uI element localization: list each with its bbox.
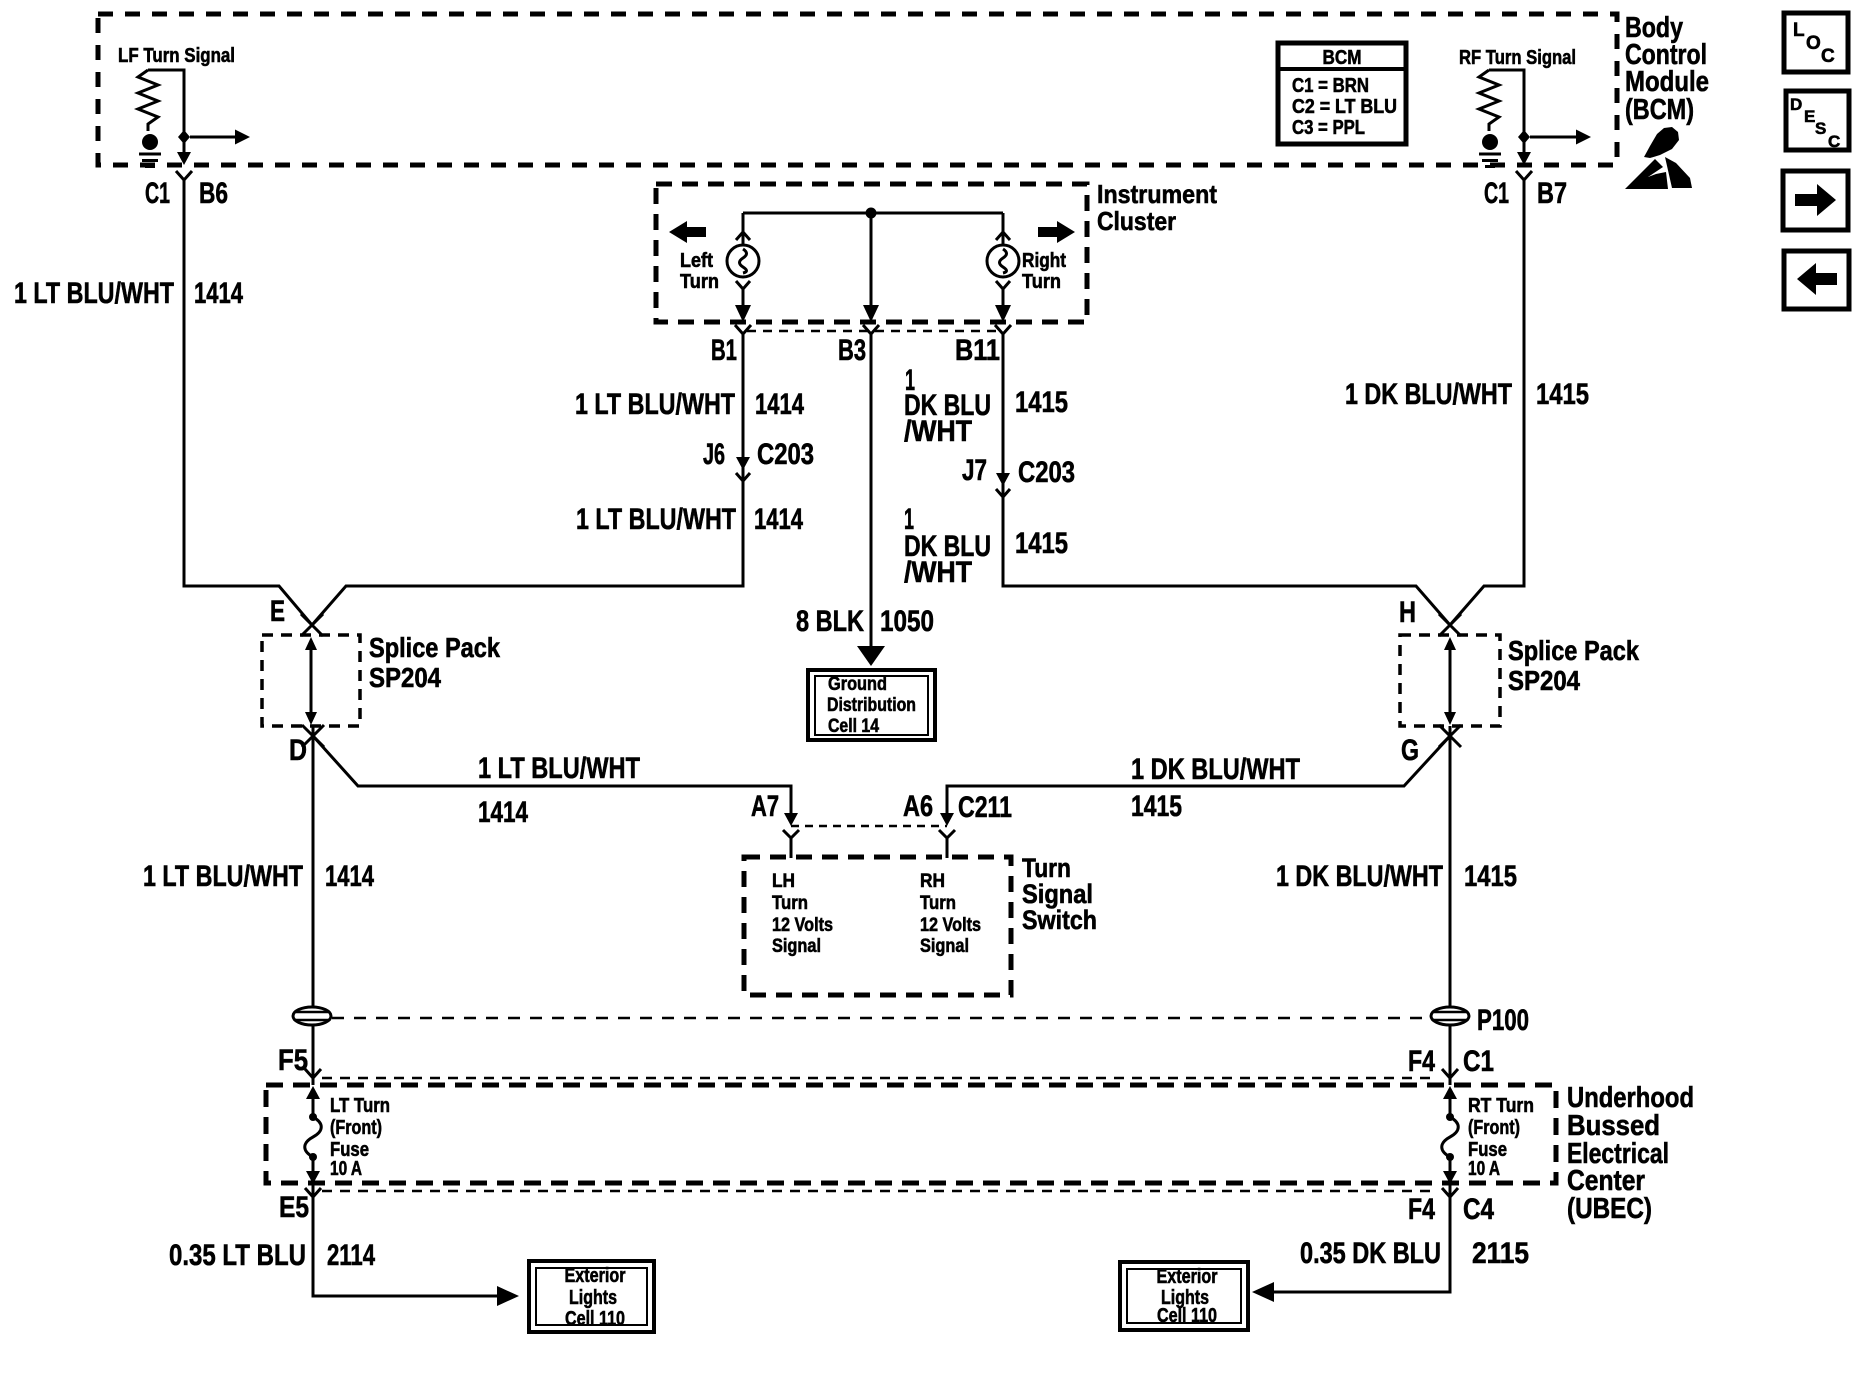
splice bus arrow right — [1444, 637, 1456, 725]
wire D to A7 — [313, 736, 791, 813]
node junction RF output — [1518, 130, 1530, 144]
svg-text:1 LT BLU/WHT: 1 LT BLU/WHT — [478, 752, 640, 785]
connector E5 — [305, 1188, 321, 1205]
svg-text:Ground: Ground — [828, 674, 887, 695]
Exterior Lights Cell 110 box right — [1120, 1262, 1248, 1330]
svg-text:Distribution: Distribution — [827, 695, 916, 716]
svg-text:Turn: Turn — [772, 893, 808, 914]
ground RF — [1479, 134, 1501, 167]
svg-text:Right: Right — [1022, 250, 1066, 272]
svg-text:SP204: SP204 — [1508, 665, 1580, 696]
svg-text:A6: A6 — [903, 790, 933, 823]
svg-text:1415: 1415 — [1015, 386, 1068, 419]
svg-text:/WHT: /WHT — [904, 556, 972, 589]
svg-text:D: D — [1790, 95, 1802, 114]
svg-text:C: C — [1828, 132, 1840, 151]
resistor LF Turn Signal — [118, 45, 235, 152]
svg-text:C211: C211 — [958, 791, 1012, 824]
svg-text:1415: 1415 — [1131, 790, 1182, 823]
svg-text:Cell 110: Cell 110 — [1157, 1305, 1217, 1327]
svg-text:Cell 110: Cell 110 — [565, 1308, 625, 1330]
splice pack SP204 right box — [1400, 635, 1500, 726]
svg-text:12 Volts: 12 Volts — [920, 915, 981, 936]
svg-text:Turn: Turn — [680, 271, 719, 293]
connector line C211 dashed — [791, 825, 947, 828]
svg-text:H: H — [1399, 596, 1416, 629]
svg-text:E5: E5 — [279, 1191, 309, 1224]
Exterior Lights Cell 110 box left — [529, 1261, 654, 1332]
resistor RF Turn Signal — [1459, 47, 1576, 152]
svg-text:Splice Pack: Splice Pack — [1508, 635, 1639, 666]
svg-text:12 Volts: 12 Volts — [772, 915, 833, 936]
svg-text:SP204: SP204 — [369, 662, 441, 693]
grommet P100 left — [293, 1007, 331, 1025]
svg-text:Turn: Turn — [920, 893, 956, 914]
svg-text:C2 = LT BLU: C2 = LT BLU — [1292, 96, 1397, 118]
label Body Control Module (BCM) — [1625, 12, 1709, 126]
svg-text:10 A: 10 A — [1468, 1158, 1500, 1180]
svg-text:1414: 1414 — [194, 277, 243, 310]
connector C1/B6 exit arrow — [177, 152, 191, 165]
ESD sensitivity symbol — [1625, 127, 1692, 189]
Ground Distribution Cell 14 box — [808, 670, 935, 740]
node G X junction — [1439, 725, 1461, 747]
wires to cluster bottom with exit arrows — [743, 218, 1003, 306]
lamp Left Turn indicator — [727, 245, 759, 277]
svg-text:A7: A7 — [751, 790, 779, 823]
connector F4/C1 — [1442, 1069, 1458, 1078]
svg-text:1050: 1050 — [880, 605, 934, 638]
svg-text:Signal: Signal — [772, 936, 821, 957]
svg-text:1 LT BLU/WHT: 1 LT BLU/WHT — [143, 860, 303, 893]
junction node B3 tap — [866, 208, 877, 219]
svg-text:Exterior: Exterior — [565, 1265, 626, 1287]
icon DESC — [1786, 91, 1849, 151]
wire arrow inside BCM left — [190, 130, 250, 145]
wire B11 to node H — [1003, 342, 1450, 625]
wire arrow inside BCM right — [1530, 130, 1591, 145]
svg-text:C4: C4 — [1463, 1193, 1494, 1226]
wire B3 ground 8 BLK 1050 — [870, 342, 873, 648]
svg-text:Instrument: Instrument — [1097, 179, 1217, 209]
svg-text:LT Turn: LT Turn — [330, 1095, 390, 1117]
svg-text:Lights: Lights — [569, 1287, 617, 1309]
svg-text:2115: 2115 — [1472, 1237, 1529, 1270]
svg-text:G: G — [1401, 734, 1419, 767]
svg-text:1 DK BLU/WHT: 1 DK BLU/WHT — [1276, 860, 1443, 893]
connector C1/B7 Y symbol — [1516, 171, 1532, 188]
svg-text:E: E — [1804, 107, 1815, 126]
svg-text:C203: C203 — [1018, 456, 1075, 489]
svg-text:F4: F4 — [1408, 1045, 1435, 1078]
icon back arrow — [1784, 251, 1849, 309]
BCM module dashed box — [98, 14, 1617, 165]
svg-text:1414: 1414 — [325, 860, 374, 893]
svg-text:0.35 LT BLU: 0.35 LT BLU — [169, 1239, 306, 1272]
svg-text:C203: C203 — [757, 438, 814, 471]
svg-text:E: E — [270, 595, 285, 628]
svg-text:1415: 1415 — [1536, 378, 1589, 411]
wire B1 to node E — [312, 342, 743, 625]
svg-text:B6: B6 — [199, 177, 228, 210]
splice pack SP204 left box — [262, 635, 360, 726]
svg-text:F4: F4 — [1408, 1193, 1435, 1226]
connector chevrons above bulbs — [736, 232, 1010, 240]
svg-text:LH: LH — [772, 871, 795, 892]
wire E5 to Exterior Lights left — [313, 1184, 499, 1296]
wire G to P100 — [1449, 726, 1452, 1008]
UBEC connector dashed lines — [322, 1077, 1438, 1080]
right turn arrow icon — [1038, 221, 1075, 243]
node H X junction — [1439, 614, 1461, 636]
svg-text:Splice Pack: Splice Pack — [369, 632, 500, 663]
Instrument Cluster dashed box — [656, 184, 1087, 322]
svg-text:B1: B1 — [711, 334, 737, 367]
ground LF — [139, 134, 161, 167]
svg-text:P100: P100 — [1477, 1004, 1529, 1037]
svg-text:(Front): (Front) — [1468, 1117, 1520, 1139]
Turn Signal Switch dashed box — [744, 857, 1011, 995]
lamp Right Turn indicator — [987, 245, 1019, 277]
svg-text:(Front): (Front) — [330, 1117, 382, 1139]
svg-text:2114: 2114 — [327, 1239, 375, 1272]
svg-text:1 LT BLU/WHT: 1 LT BLU/WHT — [575, 388, 735, 421]
svg-text:L: L — [1793, 20, 1805, 41]
P100 dashed line — [332, 1017, 1430, 1020]
svg-text:C1: C1 — [1484, 177, 1509, 210]
svg-text:J6: J6 — [703, 438, 725, 471]
fuse RT Turn (Front) 10 A — [1442, 1086, 1459, 1184]
UBEC dashed box — [266, 1085, 1556, 1183]
svg-text:1414: 1414 — [755, 388, 804, 421]
wire G to A6 — [947, 736, 1450, 813]
wire C4 to Exterior Lights right — [1272, 1184, 1450, 1292]
wire B7 to node H — [1450, 188, 1524, 625]
wires P100 to UBEC — [313, 1025, 1450, 1085]
connector A6 C211 — [939, 813, 955, 858]
svg-text:RF Turn Signal: RF Turn Signal — [1459, 47, 1576, 69]
svg-text:Exterior: Exterior — [1157, 1266, 1218, 1288]
left turn arrow icon — [669, 221, 706, 243]
cluster connector dashed line — [747, 330, 1001, 333]
connector C1/B6 Y symbol — [176, 171, 192, 188]
svg-text:B3: B3 — [838, 334, 866, 367]
svg-text:1414: 1414 — [754, 503, 803, 536]
Y connectors B1 B3 B11 — [735, 325, 751, 342]
connector F4/C4 — [1442, 1188, 1458, 1205]
BCM connector table — [1278, 43, 1406, 144]
svg-text:1415: 1415 — [1015, 527, 1068, 560]
svg-text:RT Turn: RT Turn — [1468, 1095, 1534, 1117]
svg-text:Turn: Turn — [1022, 271, 1061, 293]
svg-text:1414: 1414 — [478, 796, 528, 829]
svg-text:(UBEC): (UBEC) — [1567, 1193, 1652, 1225]
svg-text:1 LT BLU/WHT: 1 LT BLU/WHT — [576, 503, 736, 536]
svg-text:BCM: BCM — [1323, 47, 1362, 69]
connector A7 — [783, 813, 799, 858]
wire B6 to node E — [184, 188, 312, 625]
svg-text:Cluster: Cluster — [1097, 206, 1176, 236]
node junction LF output — [178, 130, 190, 144]
svg-text:C3 = PPL: C3 = PPL — [1292, 117, 1365, 139]
fuse LT Turn (Front) 10 A — [305, 1086, 322, 1184]
svg-text:Left: Left — [680, 250, 713, 272]
svg-text:D: D — [289, 734, 307, 767]
node E X junction — [301, 614, 323, 636]
svg-text:1 LT BLU/WHT: 1 LT BLU/WHT — [14, 277, 174, 310]
cluster bus wire — [743, 213, 1003, 245]
svg-text:0.35 DK BLU: 0.35 DK BLU — [1300, 1237, 1441, 1270]
svg-text:10 A: 10 A — [330, 1158, 362, 1180]
svg-text:B11: B11 — [955, 334, 1000, 367]
svg-text:Cell 14: Cell 14 — [828, 716, 879, 737]
connector J7 C203 — [996, 473, 1010, 497]
svg-text:F5: F5 — [278, 1044, 308, 1077]
svg-text:8 BLK: 8 BLK — [796, 605, 864, 638]
icon LOC — [1784, 13, 1848, 72]
icon next arrow — [1783, 171, 1848, 230]
svg-text:(BCM): (BCM) — [1625, 94, 1694, 126]
grommet P100 right — [1431, 1007, 1469, 1025]
svg-text:LF Turn Signal: LF Turn Signal — [118, 45, 235, 67]
svg-text:C1: C1 — [145, 177, 170, 210]
svg-text:1 DK BLU/WHT: 1 DK BLU/WHT — [1131, 753, 1300, 786]
svg-text:C: C — [1821, 46, 1835, 67]
svg-text:B7: B7 — [1537, 177, 1567, 210]
svg-text:S: S — [1815, 119, 1826, 138]
Y connectors below bulbs — [736, 281, 1010, 297]
connector F5 — [305, 1069, 321, 1078]
connector J6 C203 — [736, 457, 750, 481]
svg-text:/WHT: /WHT — [904, 415, 972, 448]
svg-text:J7: J7 — [962, 454, 987, 487]
svg-text:O: O — [1806, 33, 1821, 54]
svg-text:C1 = BRN: C1 = BRN — [1292, 75, 1369, 97]
svg-text:1 DK BLU/WHT: 1 DK BLU/WHT — [1345, 378, 1512, 411]
svg-text:C1: C1 — [1463, 1045, 1494, 1078]
connector C1/B7 exit arrow — [1517, 152, 1531, 165]
svg-text:1415: 1415 — [1464, 860, 1517, 893]
svg-text:RH: RH — [920, 871, 945, 892]
node D X junction — [302, 725, 324, 747]
svg-text:Switch: Switch — [1022, 905, 1097, 935]
svg-text:Signal: Signal — [920, 936, 969, 957]
splice bus arrow left — [305, 637, 317, 725]
wire D to P100 — [312, 726, 315, 1008]
